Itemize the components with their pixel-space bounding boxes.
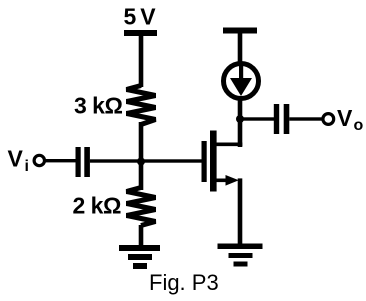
capacitor C2 bbox=[274, 104, 290, 134]
power rail bar VDD left bbox=[124, 30, 157, 36]
transistor Q1 gate bar bbox=[202, 141, 207, 182]
svg-text:V: V bbox=[8, 146, 24, 172]
resistor R1 3 kOhm bbox=[127, 86, 156, 125]
ground (source of Q1) bbox=[218, 244, 263, 267]
svg-text:o: o bbox=[354, 117, 364, 134]
wire C2 to Vo terminal bbox=[289, 117, 322, 120]
wire R1 bottom through gate node to R2 top bbox=[139, 122, 144, 190]
node gate junction dot bbox=[137, 158, 145, 166]
power rail bar VDD right bbox=[223, 28, 257, 34]
wire node B to C2 bbox=[240, 117, 274, 120]
ground (below R2) bbox=[119, 245, 160, 269]
terminal Vi bbox=[34, 155, 44, 165]
svg-text:Fig. P3: Fig. P3 bbox=[149, 270, 219, 295]
transistor Q1 source tap wire bbox=[216, 179, 228, 183]
capacitor C1 bbox=[76, 147, 90, 177]
current source I1 circle bbox=[224, 64, 259, 99]
wire current source to node B bbox=[238, 96, 243, 121]
svg-text:5 V: 5 V bbox=[124, 4, 157, 30]
current source I1 arrow head bbox=[230, 78, 252, 96]
resistor R2 2 kOhm bbox=[127, 188, 156, 226]
svg-text:V: V bbox=[337, 105, 353, 131]
wire VDD bar to current source bbox=[238, 32, 243, 65]
transistor Q1 source arrow (NMOS) bbox=[226, 175, 239, 186]
transistor Q1 channel bar bbox=[210, 131, 217, 192]
wire C1 to gate of Q1 bbox=[90, 159, 202, 162]
svg-text:3 kΩ: 3 kΩ bbox=[74, 93, 122, 119]
node B drain junction dot bbox=[236, 115, 244, 123]
wire source down to ground bbox=[238, 178, 243, 245]
transistor Q1 drain tap wire bbox=[216, 143, 242, 147]
wire R2 bottom to ground bbox=[139, 225, 144, 247]
svg-text:2 kΩ: 2 kΩ bbox=[73, 193, 121, 219]
wire Vi terminal to C1 bbox=[45, 159, 77, 162]
terminal Vo bbox=[323, 114, 334, 125]
wire drain up to node B bbox=[238, 117, 243, 147]
svg-text:i: i bbox=[25, 158, 29, 175]
current source I1 arrow shaft bbox=[239, 63, 243, 80]
wire VDD bar to R1 top bbox=[139, 34, 144, 87]
